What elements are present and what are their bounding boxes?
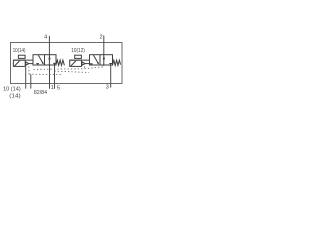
valve V2 blocked port left square	[90, 64, 92, 65]
dashed pilot channel vertical left	[28, 67, 30, 75]
svg-text:2: 2	[100, 35, 103, 41]
arrowhead V1 left square	[42, 62, 44, 64]
wire pilot connector V2	[85, 63, 89, 65]
enclosure box	[11, 43, 123, 84]
wire port 2 line	[103, 36, 105, 55]
svg-text:3: 3	[106, 85, 109, 91]
wire port 4 line	[48, 36, 50, 55]
solenoid Y1	[13, 60, 25, 66]
valve V2 flow arrow left square	[94, 55, 99, 64]
svg-text:(14): (14)	[9, 94, 21, 100]
dashed pilot channel row C	[29, 73, 62, 76]
wire port 1 line	[49, 65, 51, 89]
valve V2 blocked port right square	[110, 64, 112, 65]
wire port 5 line	[54, 65, 56, 89]
wire port 3 line	[110, 65, 112, 88]
manual override V2	[75, 55, 82, 58]
valve V1 blocked port left square	[37, 64, 39, 65]
valve V1 body	[33, 55, 56, 65]
valve V1 flow arrow left square	[38, 55, 43, 64]
dashed pilot channel row A	[34, 67, 104, 70]
svg-text:1: 1	[51, 85, 54, 91]
svg-text:10 (14): 10 (14)	[3, 86, 21, 92]
wire pilot connector V1	[29, 63, 33, 65]
spring V2	[113, 60, 121, 65]
wire pilot exhaust 84 line	[30, 74, 32, 88]
dashed pilot channel vertical right body	[102, 65, 104, 67]
svg-text:82/84: 82/84	[34, 90, 47, 96]
svg-text:10(14): 10(14)	[13, 48, 26, 54]
valve V1 flow line right square	[48, 55, 50, 65]
svg-text:5: 5	[57, 86, 60, 92]
valve V2 flow line right square	[103, 55, 105, 65]
valve V2 body	[90, 55, 113, 65]
arrowhead V1 right square	[48, 56, 50, 60]
svg-text:4: 4	[44, 34, 47, 40]
pilot triangle V2	[82, 62, 85, 65]
manual override V1	[18, 55, 25, 58]
dashed pilot channel vertical right triangle	[83, 66, 85, 68]
valve V1 blocked port right square	[54, 63, 56, 65]
solenoid Y2	[70, 60, 82, 66]
wire pilot exhaust 82 line	[25, 66, 27, 88]
wire shelf V2	[70, 59, 90, 61]
spring V1	[56, 60, 65, 65]
wire shelf V1	[13, 59, 33, 61]
arrowhead V2 left square	[97, 62, 99, 64]
pilot triangle V1	[26, 62, 29, 65]
svg-text:10(12): 10(12)	[71, 48, 85, 54]
dashed pilot channel row B	[54, 71, 89, 72]
arrowhead V2 right square	[103, 56, 105, 60]
